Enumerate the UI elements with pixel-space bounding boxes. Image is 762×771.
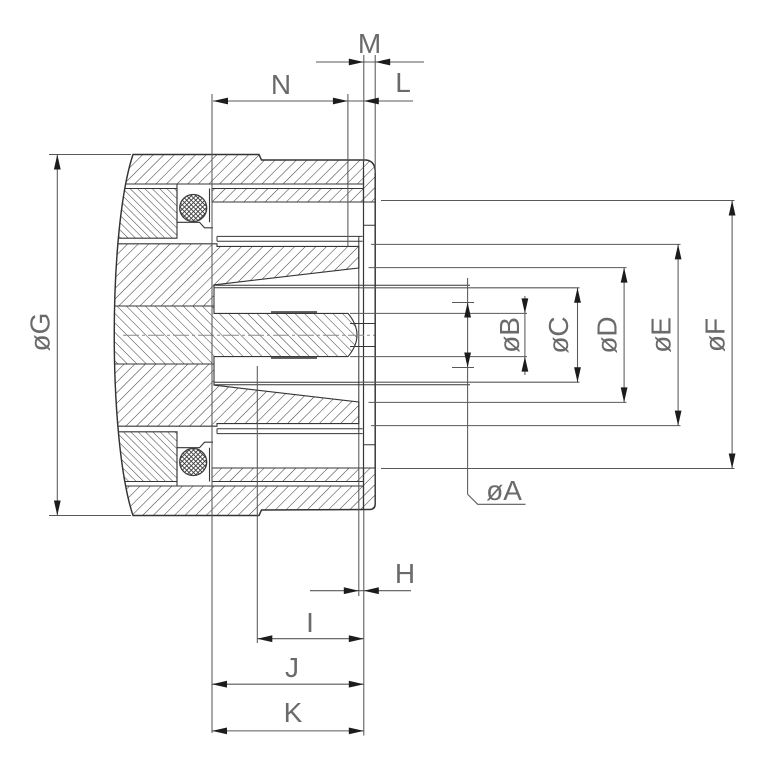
contact dark segment top bbox=[271, 311, 317, 313]
dim C attach lines bbox=[360, 288, 580, 382]
hatched band bottom outer shell bbox=[100, 486, 364, 516]
o-ring groove bottom bbox=[177, 442, 213, 485]
svg-text:K: K bbox=[284, 697, 303, 728]
svg-text:J: J bbox=[285, 652, 299, 683]
svg-text:øG: øG bbox=[25, 313, 56, 352]
dim B arrows bbox=[522, 298, 529, 313]
insert lower wedge bbox=[100, 364, 359, 426]
dim D line bbox=[623, 268, 625, 403]
rear grommet face bbox=[358, 236, 360, 433]
svg-text:H: H bbox=[395, 558, 415, 589]
contact dark segment bottom bbox=[271, 357, 317, 359]
dim E attach lines bbox=[371, 244, 681, 425]
svg-text:I: I bbox=[306, 607, 314, 638]
dim I line bbox=[257, 638, 364, 640]
dim F arrows bbox=[729, 201, 736, 216]
dim N arrows bbox=[213, 98, 228, 105]
dim G extension lines bbox=[49, 155, 131, 516]
dim A arrows bbox=[464, 303, 471, 318]
hatched band bottom inner shell bbox=[212, 468, 364, 482]
dim J arrows bbox=[212, 681, 227, 688]
extension line left datum bbox=[211, 94, 213, 733]
dim M extension lines bbox=[364, 55, 375, 173]
dim I arrows bbox=[257, 635, 272, 642]
dim I extension line bbox=[256, 366, 258, 643]
dim M line bbox=[316, 61, 424, 63]
dim D attach lines bbox=[369, 268, 627, 403]
outer shell profile bbox=[114, 155, 375, 516]
dim C arrows bbox=[574, 288, 581, 303]
dim J line bbox=[212, 683, 364, 685]
dim F line bbox=[731, 201, 733, 469]
dim D arrows bbox=[621, 268, 628, 283]
dim B line bbox=[524, 296, 526, 375]
svg-text:øC: øC bbox=[543, 316, 574, 353]
retaining clip block bottom bbox=[100, 432, 177, 482]
dim A attach stubs bbox=[452, 303, 474, 368]
hatched flange top corner block bbox=[364, 160, 376, 202]
flange inner face bbox=[363, 171, 365, 510]
dim F attach lines bbox=[381, 201, 735, 469]
svg-text:øF: øF bbox=[700, 318, 731, 352]
dim E arrows bbox=[675, 244, 682, 259]
o-ring bottom bbox=[180, 449, 207, 476]
retaining washer lines top bbox=[217, 236, 363, 241]
svg-text:M: M bbox=[358, 28, 381, 59]
contact lines in bore bbox=[350, 324, 385, 347]
hatched band top outer shell bbox=[100, 155, 364, 185]
dim C line bbox=[577, 288, 579, 382]
o-ring groove top bbox=[177, 185, 213, 228]
hatched flange bottom corner block bbox=[364, 468, 376, 510]
dim N-L line bbox=[213, 100, 413, 102]
dim H arrows bbox=[344, 587, 359, 594]
svg-text:L: L bbox=[395, 67, 411, 98]
svg-text:N: N bbox=[271, 69, 291, 100]
dim K arrows bbox=[212, 728, 227, 735]
dim G arrows bbox=[54, 155, 61, 170]
dim A leader bbox=[468, 494, 526, 504]
dim H line bbox=[310, 590, 411, 592]
svg-text:øE: øE bbox=[646, 317, 677, 353]
o-ring top bbox=[180, 195, 207, 222]
dim G line bbox=[56, 155, 58, 516]
extension line insert face bbox=[347, 94, 349, 246]
hatched band top inner shell bbox=[212, 189, 364, 203]
dim E line bbox=[677, 244, 679, 425]
dim K line bbox=[212, 730, 364, 732]
centerline bbox=[123, 334, 396, 336]
retaining clip block top bbox=[100, 189, 177, 239]
dim B attach lines bbox=[350, 313, 527, 356]
dim M arrows bbox=[349, 59, 364, 66]
center web bbox=[100, 306, 357, 364]
svg-text:øB: øB bbox=[494, 317, 525, 353]
retaining washer lines bottom bbox=[217, 429, 363, 434]
insert upper wedge bbox=[100, 244, 359, 306]
dim A line bbox=[467, 278, 469, 494]
flange notch ticks bbox=[364, 225, 376, 444]
svg-text:øD: øD bbox=[592, 316, 623, 353]
dim L arrow bbox=[364, 98, 379, 105]
dim H extension lines bbox=[359, 434, 364, 736]
svg-text:øA: øA bbox=[486, 475, 522, 506]
